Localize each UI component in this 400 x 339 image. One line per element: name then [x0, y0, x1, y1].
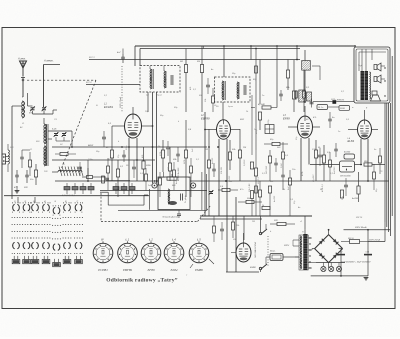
svg-text:50k 0,1W: 50k 0,1W	[249, 182, 251, 192]
svg-text:220: 220	[23, 187, 28, 189]
svg-text:ECH81: ECH81	[104, 105, 113, 109]
svg-text:200V 90mA: 200V 90mA	[354, 226, 367, 229]
svg-text:s1: s1	[300, 221, 302, 223]
svg-text:C51: C51	[366, 252, 370, 254]
svg-text:ECH81: ECH81	[97, 268, 108, 272]
svg-text:EF89: EF89	[283, 117, 290, 121]
svg-text:4n/250: 4n/250	[352, 197, 359, 200]
svg-text:ARW: ARW	[87, 144, 94, 147]
svg-text:s: s	[288, 215, 289, 217]
svg-text:Zr: Zr	[95, 104, 98, 107]
svg-text:f1: f1	[14, 201, 16, 203]
svg-text:0,1: 0,1	[104, 95, 107, 97]
svg-text:A zew.: A zew.	[17, 56, 26, 60]
svg-text:1M: 1M	[243, 147, 246, 149]
svg-text:RW10%: RW10%	[337, 100, 345, 102]
svg-text:4μ 240: 4μ 240	[258, 103, 265, 106]
svg-text:EM80: EM80	[194, 268, 203, 272]
svg-text:EL84: EL84	[348, 139, 355, 143]
svg-text:10k 1W: 10k 1W	[221, 166, 223, 174]
svg-text:Tr: Tr	[302, 232, 304, 234]
svg-text:220V: 220V	[283, 245, 290, 247]
svg-text:1M: 1M	[252, 221, 255, 223]
svg-text:4n/350: 4n/350	[211, 157, 214, 164]
svg-text:A wewn.: A wewn.	[43, 59, 54, 63]
svg-text:EBF89: EBF89	[122, 268, 132, 272]
svg-text:6-25: 6-25	[52, 129, 57, 131]
svg-text:Gniazdo głośnika: Gniazdo głośnika	[163, 216, 181, 218]
svg-text:25k 0,1: 25k 0,1	[258, 177, 260, 185]
svg-text:4n/350: 4n/350	[228, 175, 231, 182]
svg-text:f.p.cz: f.p.cz	[157, 95, 162, 97]
svg-text:Odbiornik radiowy „Tatry”: Odbiornik radiowy „Tatry”	[106, 278, 177, 284]
svg-text:EF89: EF89	[146, 268, 154, 272]
svg-text:0,1: 0,1	[341, 91, 344, 93]
svg-text:220k: 220k	[330, 99, 336, 101]
svg-text:L1: L1	[22, 123, 24, 125]
svg-text:Ł.2: Ł.2	[149, 238, 153, 242]
svg-text:EBF89: EBF89	[201, 117, 210, 121]
svg-text:OKO MAGICZNE: OKO MAGICZNE	[254, 241, 257, 258]
svg-text:0,1: 0,1	[193, 89, 196, 91]
svg-text:0,25 W: 0,25 W	[244, 159, 246, 166]
svg-text:Bezp.: Bezp.	[270, 251, 276, 253]
svg-text:0,1: 0,1	[330, 173, 333, 175]
svg-text:R.C.1: R.C.1	[89, 57, 95, 59]
svg-text:220: 220	[273, 220, 278, 222]
svg-text:4n/350: 4n/350	[273, 195, 276, 202]
svg-text:1M: 1M	[162, 177, 165, 179]
svg-text:f1: f1	[30, 149, 32, 151]
svg-text:50μF 350/385V + 50μF 250/385V: 50μF 350/385V + 50μF 250/385V	[341, 261, 371, 263]
svg-text:360 Ω: 360 Ω	[348, 238, 354, 240]
svg-text:8n2/350: 8n2/350	[334, 166, 336, 174]
svg-text:1M 0,1W: 1M 0,1W	[266, 165, 268, 174]
svg-text:Tr.gł.: Tr.gł.	[358, 65, 363, 67]
svg-text:A1: A1	[19, 126, 23, 129]
svg-text:4n/500 4n/500: 4n/500 4n/500	[177, 167, 180, 181]
svg-text:220k: 220k	[145, 165, 152, 167]
svg-text:100V 13mA: 100V 13mA	[119, 97, 122, 108]
svg-text:25μ/25V: 25μ/25V	[313, 174, 315, 183]
svg-text:200p: 200p	[256, 129, 258, 135]
svg-text:470k 0,1: 470k 0,1	[321, 184, 324, 192]
svg-text:EM80: EM80	[250, 267, 256, 269]
svg-text:0,1: 0,1	[196, 159, 199, 161]
svg-text:230V 25mA: 230V 25mA	[368, 239, 380, 242]
svg-text:1M GŁOŚN.: 1M GŁOŚN.	[340, 175, 351, 178]
svg-text:2M: 2M	[204, 149, 208, 151]
svg-text:ZW 15: ZW 15	[355, 217, 363, 219]
svg-text:4n/250: 4n/250	[344, 151, 351, 154]
svg-text:0,5M: 0,5M	[281, 163, 283, 168]
svg-text:0,1: 0,1	[262, 173, 265, 175]
svg-text:EL84: EL84	[170, 268, 178, 272]
svg-text:R.C.2: R.C.2	[86, 82, 92, 84]
svg-text:Tr. głośn.: Tr. głośn.	[185, 194, 187, 203]
svg-text:Ł.5: Ł.5	[197, 238, 201, 242]
svg-text:250Ω: 250Ω	[339, 108, 345, 110]
svg-text:Ł.1: Ł.1	[126, 238, 130, 242]
svg-text:Ł.4: Ł.4	[172, 238, 176, 242]
svg-text:f.p.cz: f.p.cz	[228, 106, 233, 108]
